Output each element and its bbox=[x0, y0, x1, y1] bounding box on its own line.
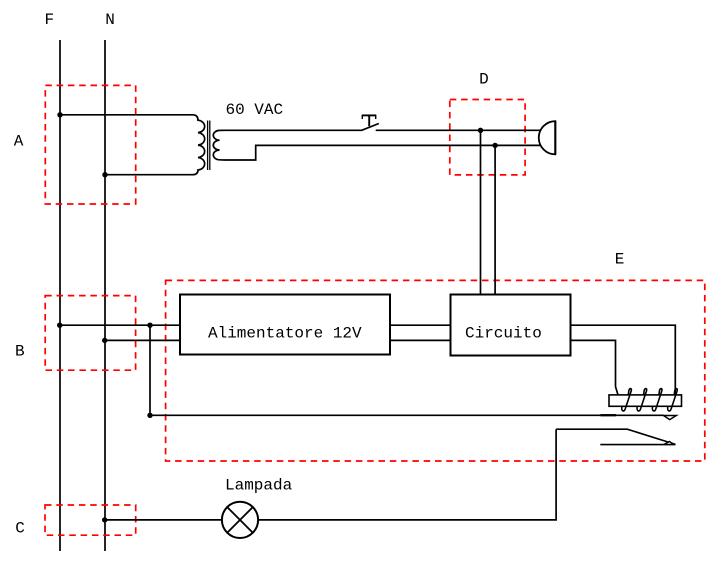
transformer T1 primary winding with feed wires bbox=[60, 115, 205, 175]
net F rail bbox=[59, 40, 61, 551]
relay armature wire from tap bbox=[150, 414, 664, 416]
box U1 Alimentatore 12V bbox=[180, 295, 390, 355]
junction dot D top bbox=[478, 128, 483, 133]
junction dot on F (B zone) bbox=[57, 323, 62, 328]
relay K1 coil winding bbox=[622, 389, 677, 411]
relay blade tip arrow bbox=[664, 442, 674, 445]
zone box E (red dashed) bbox=[166, 280, 705, 461]
lamp LP1 bbox=[222, 502, 258, 538]
wire junction D bottom down to Circuito bbox=[494, 145, 496, 294]
junction dot elbow at x150 bottom bbox=[147, 413, 152, 418]
svg-text:Alimentatore 12V: Alimentatore 12V bbox=[208, 325, 362, 343]
transformer T1 core bbox=[208, 121, 210, 171]
wire tap down from x150 bbox=[149, 325, 151, 415]
wire secondary top to switch bbox=[220, 129, 361, 131]
zone box A (red dashed) bbox=[45, 85, 135, 204]
svg-text:Circuito: Circuito bbox=[465, 325, 542, 343]
wire Circuito right bottom to relay coil left bbox=[571, 340, 619, 395]
svg-text:60 VAC: 60 VAC bbox=[226, 101, 284, 119]
zone box D (red dashed) bbox=[450, 100, 525, 175]
wire blade down to lamp line bbox=[105, 429, 556, 520]
junction dot on F at transformer feed bbox=[57, 112, 62, 117]
svg-text:C: C bbox=[15, 520, 25, 538]
junction dot D bottom bbox=[492, 143, 497, 148]
relay armature fixed contact thick segment bbox=[600, 414, 616, 416]
svg-text:N: N bbox=[105, 11, 115, 29]
svg-text:B: B bbox=[15, 342, 25, 360]
wire N to Alimentatore bbox=[105, 339, 180, 341]
wire switch to buzzer top bbox=[376, 129, 542, 131]
pushbutton switch S1 actuator T bbox=[362, 115, 376, 126]
junction dot on N (C zone) bbox=[102, 517, 107, 522]
relay armature moving tip arrow bbox=[664, 416, 677, 420]
net N rail bbox=[104, 40, 106, 551]
svg-text:F: F bbox=[44, 11, 54, 29]
svg-text:A: A bbox=[14, 133, 24, 151]
svg-text:E: E bbox=[615, 251, 625, 269]
zone box C (red dashed) bbox=[45, 505, 136, 535]
relay switched blade bottom edge bbox=[600, 444, 675, 446]
buzzer BZ1 bbox=[539, 121, 556, 154]
svg-text:Lampada: Lampada bbox=[225, 477, 293, 495]
zone box B (red dashed) bbox=[45, 296, 135, 371]
junction dot on N at transformer feed bbox=[102, 172, 107, 177]
svg-text:D: D bbox=[479, 71, 489, 89]
wire Circuito right top to relay coil right bbox=[571, 325, 676, 395]
relay switched blade top edge bbox=[556, 429, 675, 444]
relay K1 coil core bar bbox=[609, 395, 682, 406]
pushbutton switch S1 lever bbox=[361, 124, 379, 131]
wire secondary bottom with jog up bbox=[220, 145, 542, 160]
box U2 Circuito bbox=[451, 295, 571, 356]
wire junction D top down to Circuito bbox=[480, 130, 482, 294]
wire between boxes top bbox=[390, 324, 451, 326]
wire between boxes bottom bbox=[390, 339, 451, 341]
junction dot on N (B zone) bbox=[102, 338, 107, 343]
wire F to Alimentatore bbox=[60, 324, 180, 326]
junction dot tap at x150 bbox=[147, 323, 152, 328]
transformer T1 secondary winding bbox=[213, 130, 219, 159]
